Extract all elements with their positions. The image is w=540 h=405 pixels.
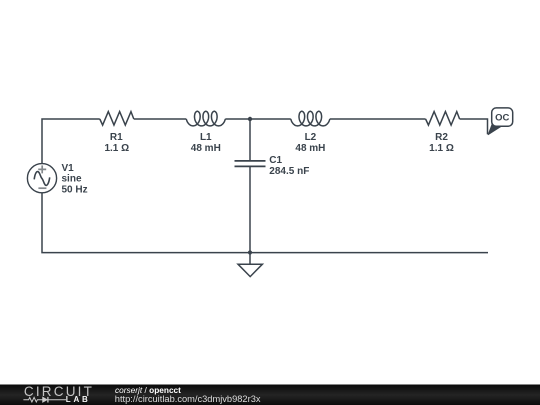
svg-text:R2: R2 — [435, 132, 448, 143]
svg-text:R1: R1 — [110, 132, 123, 143]
ground symbol — [238, 264, 262, 276]
footer bar — [0, 384, 540, 405]
wire bottom rail and V1 return — [42, 193, 488, 253]
footer url line — [115, 395, 261, 404]
svg-text:OC: OC — [495, 113, 509, 124]
svg-text:sine: sine — [62, 174, 82, 185]
wire node A to L2 — [250, 118, 291, 120]
capacitor C1 plate bottom — [235, 165, 266, 167]
OC flag bubble — [492, 108, 513, 126]
V1 plus sign — [38, 165, 46, 173]
wire L2 to R2 — [330, 118, 426, 120]
wire C1 to bottom rail — [249, 166, 251, 252]
footer author line — [115, 386, 181, 394]
svg-text:48 mH: 48 mH — [295, 143, 325, 154]
svg-text:1.1 Ω: 1.1 Ω — [104, 143, 129, 154]
logo resistor zigzag — [23, 397, 42, 402]
inductor L2 — [291, 111, 330, 126]
wire ground stub — [249, 253, 251, 265]
logo wire to LAB — [48, 398, 66, 400]
svg-text:V1: V1 — [62, 163, 75, 174]
wire R2 to OC terminal — [460, 119, 488, 134]
svg-text:48 mH: 48 mH — [191, 143, 221, 154]
wire R1 to L1 — [134, 118, 187, 120]
CircuitLab logo wordmark LAB — [66, 396, 91, 404]
logo diode triangle — [42, 397, 47, 402]
V1 minus sign — [38, 187, 46, 189]
node A junction dot — [248, 117, 252, 121]
resistor R1 — [100, 112, 134, 126]
OC flag tail — [488, 125, 501, 135]
wire top-left: V1 to R1 — [42, 119, 100, 163]
wire node A down to C1 — [249, 119, 251, 161]
CircuitLab logo squiggle (resistor + diode) — [23, 396, 67, 404]
svg-text:L2: L2 — [305, 132, 317, 143]
svg-text:284.5 nF: 284.5 nF — [269, 166, 309, 177]
resistor R2 — [426, 112, 460, 126]
svg-text:L1: L1 — [200, 132, 212, 143]
svg-text:50 Hz: 50 Hz — [62, 185, 88, 196]
voltage source V1 body — [27, 164, 56, 193]
svg-text:1.1 Ω: 1.1 Ω — [429, 143, 454, 154]
svg-text:C1: C1 — [269, 155, 282, 166]
wire L1 to node A — [225, 118, 250, 120]
CircuitLab logo wordmark CIRCUIT — [24, 385, 94, 399]
voltage source V1 sine wave — [34, 172, 50, 186]
inductor L1 — [186, 111, 225, 126]
capacitor C1 plate top — [235, 160, 266, 162]
node ground junction dot — [248, 250, 252, 254]
logo diode cathode bar — [46, 396, 48, 402]
